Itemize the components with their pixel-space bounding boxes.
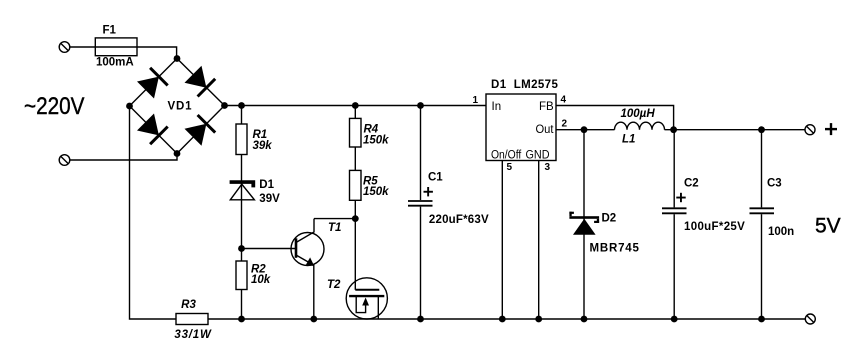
- plus output: [825, 123, 837, 135]
- fuse F1: [95, 38, 137, 56]
- svg-text:On/Off: On/Off: [491, 150, 522, 162]
- node top rail C1: [417, 102, 424, 109]
- node bottom rail C1: [417, 316, 424, 323]
- node bridge right: [221, 102, 228, 109]
- resistor R5: [350, 170, 362, 200]
- svg-text:VD1: VD1: [168, 101, 193, 113]
- inductor L1: [615, 122, 665, 130]
- node bottom rail C2: [671, 316, 678, 323]
- node bottom rail C3: [758, 316, 765, 323]
- svg-text:10k: 10k: [251, 274, 271, 286]
- node T1 emitter on rail: [310, 316, 317, 323]
- svg-text:150k: 150k: [363, 186, 389, 198]
- node bottom rail D2: [581, 316, 588, 323]
- svg-text:GND: GND: [526, 150, 550, 162]
- zener D1: [230, 180, 256, 200]
- node L1 right junction: [670, 126, 677, 133]
- plus C2: [676, 193, 685, 202]
- svg-text:C2: C2: [684, 178, 699, 190]
- terminal output minus: [805, 314, 815, 324]
- diode VD1-b (top to right): [185, 66, 216, 97]
- diode D2 schottky: [569, 212, 599, 235]
- svg-text:39k: 39k: [253, 140, 273, 152]
- wire T1 base: [242, 248, 297, 250]
- node bridge left: [126, 103, 133, 110]
- terminal input top: [59, 42, 70, 53]
- node bridge bottom: [174, 150, 181, 157]
- svg-text:F1: F1: [103, 25, 117, 37]
- wire pin3: [538, 161, 540, 320]
- svg-text:150k: 150k: [363, 135, 389, 147]
- transistor T1: [291, 219, 324, 319]
- resistor R1: [236, 124, 247, 155]
- resistor R3: [176, 314, 208, 325]
- wire D2 vertical: [583, 130, 585, 319]
- svg-text:L1: L1: [622, 134, 635, 146]
- plus C1: [424, 187, 433, 196]
- terminal input bottom: [59, 155, 70, 166]
- svg-text:FB: FB: [539, 101, 554, 113]
- node bottom rail R3: [238, 316, 245, 323]
- wire out line right: [665, 129, 806, 131]
- diode VD1-a (left to top): [137, 68, 168, 99]
- node C3 top junction: [758, 126, 765, 133]
- svg-text:T2: T2: [327, 279, 341, 291]
- svg-text:100uF*25V: 100uF*25V: [684, 221, 745, 233]
- node out pin junction: [581, 126, 588, 133]
- capacitor C3: [750, 130, 775, 319]
- diode VD1-c (left to bottom): [137, 114, 168, 145]
- svg-text:3: 3: [545, 162, 551, 173]
- wire top feed: [70, 47, 177, 59]
- node collector junction: [352, 215, 359, 222]
- resistor R4: [350, 118, 362, 147]
- node top rail R1: [238, 102, 245, 109]
- wire FB rail: [556, 106, 674, 130]
- node bottom rail pin5: [499, 316, 506, 323]
- node base junction: [238, 245, 245, 252]
- svg-text:C1: C1: [428, 172, 443, 184]
- svg-text:100n: 100n: [768, 226, 794, 238]
- wire pin5: [501, 161, 503, 320]
- wire left rail to R3: [130, 106, 177, 319]
- wire bottom rail: [208, 318, 805, 320]
- svg-text:MBR745: MBR745: [590, 243, 640, 255]
- svg-text:5V: 5V: [815, 215, 841, 238]
- svg-text:In: In: [492, 101, 502, 113]
- capacitor C1: [408, 106, 433, 320]
- transistor T2 mosfet: [346, 219, 387, 319]
- svg-text:D1 LM2575: D1 LM2575: [491, 79, 558, 91]
- svg-text:2: 2: [562, 119, 568, 130]
- svg-text:~220V: ~220V: [24, 93, 85, 120]
- svg-text:33/1W: 33/1W: [174, 329, 212, 341]
- resistor R2: [236, 261, 247, 290]
- svg-text:R3: R3: [181, 299, 196, 311]
- svg-text:5: 5: [507, 162, 513, 173]
- svg-text:100mA: 100mA: [96, 57, 134, 69]
- wire vertical R1 chain: [241, 106, 243, 320]
- svg-text:1: 1: [472, 95, 478, 106]
- diode VD1-d (bottom to right): [185, 115, 216, 146]
- svg-text:4: 4: [561, 95, 567, 106]
- wire T1 collector to junction: [314, 218, 355, 220]
- wire bridge edges: [130, 59, 225, 154]
- svg-text:39V: 39V: [259, 193, 280, 205]
- op-amp U1 LM2575 box: [486, 94, 556, 161]
- node bottom rail pin3: [535, 316, 542, 323]
- capacitor C2: [662, 130, 687, 319]
- svg-text:C3: C3: [767, 178, 782, 190]
- svg-text:D1: D1: [259, 179, 274, 191]
- node top rail R4: [352, 102, 359, 109]
- svg-text:Out: Out: [536, 124, 555, 136]
- wire bottom feed: [70, 154, 177, 161]
- svg-text:T1: T1: [328, 222, 341, 234]
- svg-text:D2: D2: [602, 213, 617, 225]
- svg-text:220uF*63V: 220uF*63V: [429, 214, 489, 226]
- svg-text:100µH: 100µH: [621, 108, 656, 120]
- wire out line: [556, 129, 615, 131]
- terminal output plus: [805, 125, 815, 135]
- wire R4 R5 vertical: [354, 106, 356, 219]
- node bridge top: [174, 55, 181, 62]
- wire top rail: [225, 105, 487, 107]
